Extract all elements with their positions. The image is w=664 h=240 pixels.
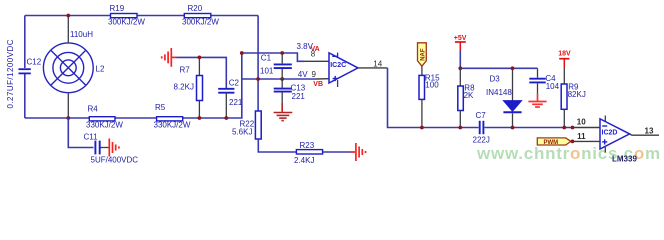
pin 9 lead	[316, 78, 329, 80]
svg-text:222J: 222J	[473, 135, 490, 144]
svg-text:330KJ/2W: 330KJ/2W	[154, 121, 191, 130]
node junction +5V/R8	[458, 66, 462, 70]
node junction R8 bottom	[458, 126, 462, 130]
svg-text:5UF/400VDC: 5UF/400VDC	[91, 156, 139, 165]
wire bottom rail	[25, 53, 242, 118]
power +5V	[454, 35, 467, 51]
node junction R7 top	[198, 56, 202, 60]
svg-text:5.6KJ: 5.6KJ	[232, 128, 252, 137]
wire VA net (pin 8)	[242, 53, 304, 61]
capacitor C7	[473, 111, 490, 144]
svg-text:LM339: LM339	[612, 155, 637, 164]
node junction wire2 at R22 line	[256, 77, 260, 81]
wire left leg (C12 branch)	[24, 16, 26, 69]
wire VB net (pin 9)	[242, 78, 316, 80]
pin 11 lead	[573, 140, 601, 142]
resistor R7	[174, 57, 203, 118]
wire ground to R7/C2 top	[177, 57, 227, 88]
wire C11 branch	[68, 118, 93, 148]
svg-text:R5: R5	[155, 103, 166, 112]
svg-text:221: 221	[292, 92, 306, 101]
svg-text:C12: C12	[27, 57, 42, 66]
svg-text:14: 14	[373, 60, 382, 69]
node junction C2 bottom	[224, 116, 228, 120]
svg-text:VB: VB	[313, 81, 323, 88]
wire L2 bottom lead	[67, 93, 69, 118]
op-amp IC2D	[600, 116, 630, 153]
resistor R20	[182, 4, 219, 26]
wire +5V horizontal	[460, 67, 537, 69]
svg-text:300KJ/2W: 300KJ/2W	[182, 17, 219, 26]
svg-text:R20: R20	[188, 4, 203, 13]
svg-text:300KJ/2W: 300KJ/2W	[108, 17, 145, 26]
power ground (rotated right) after R23	[351, 143, 366, 161]
node junction top of L2	[66, 14, 70, 18]
resistor R15	[419, 66, 440, 127]
svg-text:L2: L2	[96, 65, 105, 74]
svg-text:9: 9	[312, 70, 317, 79]
svg-text:11: 11	[577, 132, 586, 141]
svg-text:R19: R19	[110, 4, 125, 13]
diode D3 IN4148	[486, 68, 522, 127]
svg-text:100: 100	[425, 81, 439, 90]
svg-text:104: 104	[546, 82, 560, 91]
node junction pin10 lead	[571, 126, 575, 130]
pin 13 output wire	[630, 134, 659, 135]
svg-text:C1: C1	[261, 54, 272, 63]
wire R20 drop to R22	[257, 16, 259, 112]
svg-text:C7: C7	[476, 111, 487, 120]
pin 10 lead	[573, 127, 601, 129]
svg-text:2.4KJ: 2.4KJ	[294, 156, 314, 165]
svg-text:+5V: +5V	[454, 35, 467, 42]
svg-text:NAF: NAF	[421, 48, 427, 61]
svg-text:4V: 4V	[298, 70, 308, 79]
svg-text:R4: R4	[88, 104, 99, 113]
resistor R9	[561, 67, 586, 128]
wire +5V to rail node	[459, 51, 461, 69]
power 18V	[558, 50, 571, 67]
capacitor C2	[218, 78, 243, 118]
capacitor C11	[84, 132, 139, 164]
node junction R7 bottom	[198, 116, 202, 120]
svg-text:PWM: PWM	[544, 140, 559, 146]
node junction C1 bottom	[280, 77, 284, 81]
svg-text:R23: R23	[300, 141, 315, 150]
capacitor C1	[260, 53, 292, 79]
node junction C1 top	[280, 51, 284, 55]
pin 14 output wire	[358, 67, 388, 69]
resistor R22	[232, 111, 261, 139]
node junction R15 bottom	[420, 126, 424, 130]
net flag PWM	[537, 138, 571, 146]
node junction pin11 lead	[571, 140, 575, 144]
svg-text:82KJ: 82KJ	[568, 90, 586, 99]
resistor R5	[154, 103, 191, 130]
wire top bus from left leg to R22 drop	[25, 15, 258, 17]
node junction bottom of L2	[66, 116, 70, 120]
wire C11 to ground	[101, 147, 109, 149]
svg-text:110uH: 110uH	[70, 30, 93, 39]
svg-text:C13: C13	[291, 83, 306, 92]
svg-text:101: 101	[260, 66, 274, 75]
svg-text:8.2KJ: 8.2KJ	[174, 83, 194, 92]
wire R22 bottom to R23	[258, 139, 350, 152]
svg-text:IC2D: IC2D	[602, 129, 618, 136]
node junction D3 bottom	[511, 126, 515, 130]
ground under C4	[528, 93, 546, 107]
svg-text:R7: R7	[180, 65, 191, 74]
svg-text:13: 13	[645, 126, 654, 135]
svg-text:221: 221	[229, 98, 243, 107]
svg-text:C11: C11	[84, 132, 99, 141]
svg-text:IN4148: IN4148	[486, 88, 512, 97]
op-amp IC2C	[329, 53, 358, 87]
svg-text:330KJ/2W: 330KJ/2W	[86, 120, 123, 129]
capacitor C12	[19, 57, 42, 73]
node junction R9 bottom	[562, 126, 566, 130]
resistor R4	[86, 104, 123, 129]
capacitor C4	[529, 68, 559, 93]
power ground (rotated left) at R7	[162, 48, 177, 67]
capacitor C13	[274, 79, 306, 106]
svg-text:IC2C: IC2C	[330, 62, 346, 69]
wire L2 top lead	[67, 16, 69, 44]
svg-text:D3: D3	[490, 75, 501, 84]
svg-text:0.27UF/1200VDC: 0.27UF/1200VDC	[6, 39, 15, 108]
resistor R23	[294, 141, 323, 165]
resistor R8	[458, 68, 475, 127]
pin 8 lead	[304, 60, 329, 62]
svg-text:8: 8	[311, 49, 316, 58]
wire IC2C output drop to bottom rail	[388, 68, 479, 128]
node junction D3 top	[511, 66, 515, 70]
svg-text:18V: 18V	[558, 50, 571, 57]
net flag FAN	[418, 43, 427, 66]
node junction wire1 at drop	[240, 51, 244, 55]
watermark www.chntronics.com	[476, 144, 661, 163]
svg-text:C2: C2	[229, 78, 240, 87]
ground under C13	[274, 103, 293, 121]
resistor R19	[108, 4, 145, 26]
power ground (rotated right) after C11	[109, 139, 119, 157]
inductor L2	[43, 43, 93, 93]
svg-text:10: 10	[577, 117, 586, 126]
wire bottom rail right of C7	[485, 127, 573, 129]
svg-text:2K: 2K	[464, 91, 474, 100]
